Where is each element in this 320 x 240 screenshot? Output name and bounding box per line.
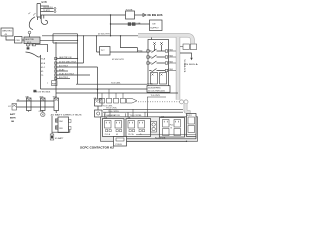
box GB contact xyxy=(95,99,103,106)
gray bus vertical xyxy=(176,37,180,100)
svg-text:45 C: 45 C xyxy=(41,67,46,69)
wire flow str xyxy=(136,134,196,136)
svg-text:75 STR: 75 STR xyxy=(43,10,50,12)
svg-text:TLG CNTL: TLG CNTL xyxy=(111,83,122,85)
svg-text:BATT: BATT xyxy=(10,113,16,116)
svg-text:PLC: PLC xyxy=(170,125,174,127)
gray bus lower jog xyxy=(186,104,189,117)
box GB lower xyxy=(95,110,103,117)
wire OS BUS A arrow xyxy=(180,53,192,58)
switch row 4 xyxy=(149,69,165,73)
svg-text:45: 45 xyxy=(116,134,118,136)
wire dashed mech link xyxy=(138,101,179,103)
svg-text:TLG CNTL: TLG CNTL xyxy=(151,95,162,97)
generator break symbol xyxy=(29,17,35,30)
svg-text:F1B4: F1B4 xyxy=(138,51,142,53)
node v77.5 xyxy=(77,34,79,84)
coil A xyxy=(151,73,158,85)
arrow DE IDB BUS xyxy=(135,14,144,16)
wire relay bus 1 xyxy=(17,100,55,102)
wire tall box to relay xyxy=(55,89,57,98)
risers into module tops xyxy=(105,97,148,117)
pin rows right edge xyxy=(55,57,57,79)
svg-text:EXB: EXB xyxy=(42,0,47,4)
terminal 45 BATT xyxy=(50,134,54,140)
coil B xyxy=(160,73,167,85)
svg-text:GEN TRU: GEN TRU xyxy=(2,31,12,33)
box module A xyxy=(103,119,125,137)
svg-text:GT: GT xyxy=(8,106,12,108)
box GEN TRU 45 xyxy=(1,28,13,36)
wire corner into SW box xyxy=(151,36,153,40)
box sleeper labels xyxy=(147,86,170,93)
svg-text:CB3: CB3 xyxy=(59,128,63,130)
svg-text:TTLG CNTL: TTLG CNTL xyxy=(106,108,118,110)
wire CB1 to gray TRU xyxy=(22,39,24,41)
coil X marks top xyxy=(153,42,163,45)
wire GEN TRLY IN xyxy=(57,58,78,60)
svg-text:45 G: 45 G xyxy=(27,42,32,44)
K2 input connector row xyxy=(100,98,105,103)
wire upper net y33.8 xyxy=(53,33,78,35)
wire IDG TRLY xyxy=(57,66,98,68)
svg-text:BNTR: BNTR xyxy=(10,117,16,119)
svg-text:45 AC: 45 AC xyxy=(59,68,65,71)
box POS B xyxy=(114,137,127,147)
svg-text:F1B4: F1B4 xyxy=(169,55,173,57)
svg-text:F1B4: F1B4 xyxy=(169,61,173,63)
wire POS B right xyxy=(127,137,197,139)
svg-text:45 IDG DISC TRLY: 45 IDG DISC TRLY xyxy=(59,61,77,63)
svg-text:45 B: 45 B xyxy=(41,63,46,65)
svg-text:45 AC IDG TRLY: 45 AC IDG TRLY xyxy=(59,72,75,75)
svg-text:L: L xyxy=(47,83,48,85)
svg-text:PLC A: PLC A xyxy=(128,133,134,136)
svg-text:TLG CNTL: TLG CNTL xyxy=(103,105,114,107)
svg-text:45 (SLEEPER): 45 (SLEEPER) xyxy=(148,87,161,89)
switch row 3 xyxy=(149,61,165,65)
wire circle to TRU box xyxy=(29,34,31,37)
wire v110 xyxy=(110,15,112,36)
risers to row xyxy=(102,89,123,98)
connector circle pin3 xyxy=(54,11,56,13)
wire 45 AC IDG TRLY xyxy=(57,74,90,76)
box module C xyxy=(160,118,185,138)
wire IDG TRLY 2 xyxy=(57,78,70,80)
wire relay bus 2 xyxy=(17,106,55,108)
switch row 1 xyxy=(149,49,165,53)
wire TRU2 out xyxy=(110,51,147,53)
svg-text:CB1: CB1 xyxy=(16,40,21,42)
svg-text:DE: DE xyxy=(153,23,157,25)
svg-text:CB4: CB4 xyxy=(59,121,63,123)
svg-text:75 STR: 75 STR xyxy=(126,9,133,11)
svg-text:75 A: 75 A xyxy=(41,58,46,61)
svg-text:IDG TRLY: IDG TRLY xyxy=(59,77,69,79)
svg-text:75: 75 xyxy=(41,75,44,77)
terminal dark xyxy=(27,46,29,47)
gray band top xyxy=(138,35,193,43)
svg-text:F1B4A: F1B4A xyxy=(147,83,153,86)
box CB1 xyxy=(15,37,23,44)
svg-text:45: 45 xyxy=(5,34,8,36)
svg-text:45 COIL PWR (45V): 45 COIL PWR (45V) xyxy=(148,91,165,93)
svg-text:IDG DIS TRU BUS: IDG DIS TRU BUS xyxy=(34,92,51,94)
svg-text:GB: GB xyxy=(11,121,15,123)
wire TRLY down xyxy=(55,111,57,114)
connector marks LINE xyxy=(128,23,131,26)
wire OS EXCLK xyxy=(41,8,54,10)
box module D xyxy=(187,114,197,137)
pin L BAT xyxy=(27,44,30,46)
connector circle pin2 xyxy=(54,8,56,10)
svg-text:PLC A: PLC A xyxy=(105,133,111,136)
switch row 2 xyxy=(149,55,165,59)
chain link left xyxy=(180,100,184,104)
svg-text:45 BATT: 45 BATT xyxy=(55,137,64,140)
wire y112.2 xyxy=(103,111,183,113)
node v83.5 xyxy=(83,36,85,63)
box CB block xyxy=(58,117,69,133)
box relay circle xyxy=(151,122,157,133)
box SCPC contactor K2 (large) xyxy=(101,117,198,142)
wire TLG CNTL y84.2 xyxy=(76,83,147,85)
wire pin1 xyxy=(41,5,50,7)
wire long top net xyxy=(41,14,126,16)
svg-text:GEN TRU: GEN TRU xyxy=(25,39,35,41)
wire main net y35.8 xyxy=(42,35,152,37)
box IDG unit (tall, broken top) xyxy=(26,52,41,57)
svg-text:45 VDC HTR: 45 VDC HTR xyxy=(112,59,124,61)
wire y109.3 xyxy=(103,108,183,110)
connector chevron xyxy=(127,99,138,104)
wire pin4 xyxy=(57,70,68,72)
box gray GEN TRU unit xyxy=(24,37,40,44)
box 75 TRU xyxy=(100,47,110,56)
relay pin stubs xyxy=(29,111,57,113)
wire batt bus down xyxy=(51,116,53,134)
relay AGB xyxy=(41,98,46,111)
wire bracket stubs down xyxy=(38,17,41,20)
pin EXT xyxy=(33,44,36,46)
svg-text:PWR: PWR xyxy=(52,83,57,85)
node v97.5 xyxy=(97,67,99,90)
svg-text:DE IDB BUS: DE IDB BUS xyxy=(148,13,163,17)
junction dot top line xyxy=(110,14,111,15)
box module B xyxy=(126,119,151,137)
wire TRU pin y44.3 xyxy=(36,44,48,52)
svg-text:IDG TRLY: IDG TRLY xyxy=(59,65,69,67)
svg-text:F1B4: F1B4 xyxy=(169,49,173,51)
box PWR small xyxy=(52,81,58,86)
node v96.5 to TRU2 xyxy=(97,36,100,52)
wire y89.5 xyxy=(56,88,147,90)
relay BAT xyxy=(27,98,32,111)
svg-text:EXT: EXT xyxy=(31,45,35,47)
relay TRLY xyxy=(54,98,59,111)
contact GB x xyxy=(12,104,17,111)
breaker CBL1 xyxy=(42,111,44,113)
wire TRU right y40.3 xyxy=(40,34,78,43)
box contactor SW unit xyxy=(148,40,169,87)
wire line to DE SUPPLY xyxy=(111,23,150,25)
svg-text:45 BATT DIRECT BUS: 45 BATT DIRECT BUS xyxy=(51,113,83,116)
svg-text:POS B: POS B xyxy=(116,144,123,146)
chain link right xyxy=(184,100,188,104)
wire 75 STR xyxy=(41,11,54,13)
wire y93 xyxy=(56,92,178,94)
box breaker B xyxy=(190,44,196,50)
connector circle GB xyxy=(28,31,31,34)
box 75 STR inline xyxy=(126,11,135,19)
wire box1 to CB1 xyxy=(6,36,15,40)
svg-text:TLG PWR 45CB: TLG PWR 45CB xyxy=(183,59,185,73)
svg-text:SCPC CONTACTOR K2: SCPC CONTACTOR K2 xyxy=(80,146,115,150)
svg-text:CBL1: CBL1 xyxy=(39,111,44,113)
svg-text:GEN TRLY IN: GEN TRLY IN xyxy=(59,57,72,59)
box DE SUPPLY xyxy=(150,20,163,31)
svg-text:OS EXCLK: OS EXCLK xyxy=(43,7,54,9)
wire branch y47.6 xyxy=(121,36,138,52)
pin stubs right of SW box xyxy=(169,51,177,71)
svg-text:F1B4: F1B4 xyxy=(169,69,173,71)
wire CB to terminal xyxy=(52,130,70,133)
svg-text:45 VDC HTR: 45 VDC HTR xyxy=(98,34,110,36)
node GB chain mid xyxy=(97,90,99,100)
svg-text:SUPPLY: SUPPLY xyxy=(150,27,159,29)
box breaker A xyxy=(183,44,189,50)
connector EXB bracket xyxy=(37,4,41,18)
svg-text:45: 45 xyxy=(41,71,44,73)
wire 45 IDG DISC TRLY xyxy=(57,62,84,64)
label IDG DIS TRU BUS xyxy=(33,90,36,92)
